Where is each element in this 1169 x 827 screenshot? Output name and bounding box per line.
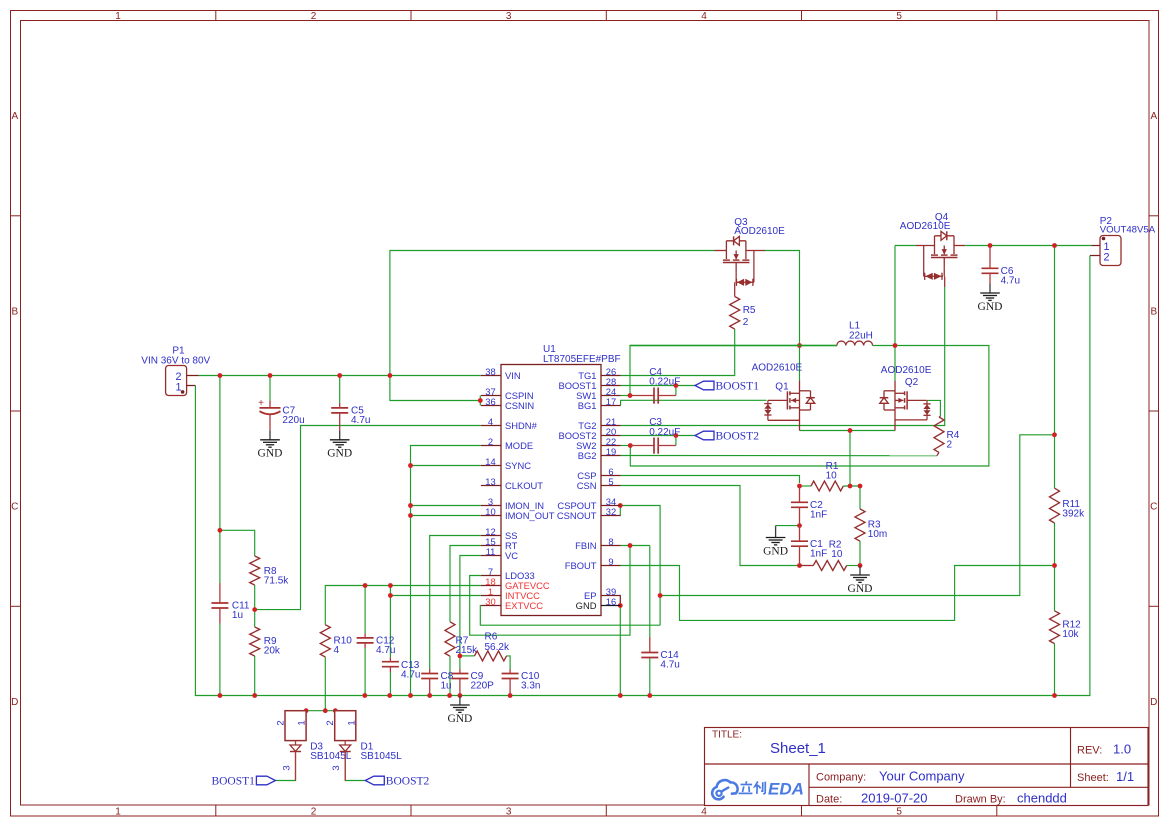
svg-text:VOUT48V5A: VOUT48V5A [1100,225,1156,236]
svg-text:GND: GND [327,448,352,460]
resistor R3 10m [855,509,865,541]
junction (219.9,695.5) [218,693,223,698]
junction (630,395.5) [628,393,633,398]
svg-text:C: C [1150,502,1157,513]
svg-text:Sheet:: Sheet: [1077,772,1109,784]
wire C9 top lead [459,656,461,669]
svg-text:2: 2 [311,807,317,818]
svg-text:3: 3 [331,765,342,770]
junction (850,430.5) [848,428,853,433]
pin 16 GND [601,605,621,607]
wire TG2 to Q4 gate [621,287,945,426]
transistor Q3 AOD2610E [725,241,727,251]
ground (R2/R3 node) [859,566,861,576]
junction (429.7,695.5) [427,693,432,698]
svg-text:1: 1 [115,807,121,818]
svg-text:Drawn By:: Drawn By: [955,794,1006,806]
net flag BOOST1 (bottom) [256,776,275,785]
svg-text:AOD2610E: AOD2610E [752,362,803,373]
svg-text:2: 2 [311,11,317,22]
wire Q1 source row [800,430,896,432]
resistor R7 215k [445,622,455,656]
wire SW1 net [621,395,630,397]
junction (799.5,486) [797,484,802,489]
wire R3 bottom lead [859,541,861,565]
wire SS to C8 [430,536,481,670]
wire C13 to rail [389,672,391,696]
capacitor C3 0.22uF (bootstrap 2) [630,445,654,447]
svg-text:GND: GND [576,600,597,611]
junction (620.3,505.5) [618,503,623,508]
resistor R10 4 [320,625,330,657]
junction (660.1,595.5) [658,593,663,598]
wire BG2 to R4 [621,455,937,457]
wire R12 to rail [1054,644,1056,696]
pin 20 BOOST2 [601,435,621,437]
junction (799.5,565.5) [797,563,802,568]
ground (bottom rail) [459,696,461,706]
svg-text:36: 36 [485,396,495,407]
wire R1 to R3 [843,485,860,487]
wire MODE riser [411,446,481,696]
op-amp U1 LT8705EFE#PBF body [501,365,601,616]
svg-text:32: 32 [606,506,616,517]
svg-text:B: B [1150,307,1157,318]
junction (219.9,375.5) [218,373,223,378]
pin 18 GATEVCC [481,585,501,587]
svg-text:20k: 20k [264,646,281,657]
svg-text:1: 1 [297,720,308,725]
wire EP tie [619,596,621,606]
ruler ticks [215,11,217,21]
wire R9 to rail [254,656,256,696]
wire SW1 riser [630,346,837,396]
pin 34 CSPOUT [601,505,621,507]
svg-text:392k: 392k [1062,509,1085,520]
junction (1054.5,245.5) [1052,243,1057,248]
wire C12 column [364,586,366,634]
junction (325.3,710.7) [323,708,328,713]
wire R6 right to C10 [507,656,511,669]
svg-text:4.7u: 4.7u [1001,276,1020,287]
junction (410.5,505.5) [408,503,413,508]
wire SW2 stub link [621,445,631,447]
pin 24 SW1 [601,395,621,397]
svg-text:1: 1 [115,11,121,22]
junction (389.9,375.5) [388,373,393,378]
wire SYNC [411,465,481,467]
wire VIN bus [199,375,481,377]
wire EP to R11 node [660,435,1054,596]
wire R3 top lead [859,486,861,509]
capacitor C8 1u [421,673,438,675]
svg-text:2: 2 [947,440,953,451]
junction (410.5,465.5) [408,463,413,468]
svg-text:71.5k: 71.5k [264,576,289,587]
junction (675.9,435.5) [674,433,679,438]
svg-text:REV:: REV: [1077,745,1102,757]
junction (799.5,525.6) [797,523,802,528]
svg-text:220P: 220P [471,681,495,692]
junction (860,565.5) [858,563,863,568]
wire C2 gnd stub [776,525,800,527]
svg-text:AOD2610E: AOD2610E [881,365,932,376]
wire D3 pin3 to flag [275,753,295,781]
svg-text:30: 30 [485,596,495,607]
resistor R11 392k [1050,488,1060,523]
resistor R8 71.5k [250,556,260,585]
junction (364.8,695.5) [362,693,367,698]
wire CSP [621,476,800,484]
wire Q1Q2 source to R1 [849,431,851,487]
svg-text:Company:: Company: [816,772,866,784]
capacitor C4 0.22uF (bootstrap 1) [630,395,654,397]
wire BOOST2 riser [675,436,677,446]
wire C11 bottom [219,624,221,696]
connector P2 [1100,236,1121,266]
svg-text:A: A [11,111,18,122]
wire C11 top [219,376,221,584]
pin 32 CSNOUT [601,515,621,517]
svg-text:C: C [11,502,18,513]
junction (630.3,445.5) [628,443,633,448]
svg-text:17: 17 [606,396,616,407]
wire FBIN to LDO33 [470,546,630,636]
wire SHDN to divider [255,426,481,610]
EDA logo [712,780,804,800]
svg-text:MODE: MODE [505,440,533,451]
capacitor C10 3.3n [502,673,519,675]
svg-text:AOD2610E: AOD2610E [734,226,785,237]
svg-text:D: D [11,697,18,708]
svg-text:LT8705EFE#PBF: LT8705EFE#PBF [543,354,621,365]
svg-text:CSNOUT: CSNOUT [557,510,597,521]
ground (C7) [269,430,271,440]
svg-text:16: 16 [606,596,616,607]
title block [705,728,1149,806]
junction (649.8,695.5) [647,693,652,698]
wire C7 top [269,376,271,401]
transistor Q1 AOD2610E [799,381,801,410]
svg-text:GND: GND [978,301,1003,313]
junction (410.5,515.5) [408,513,413,518]
pin 37 CSPIN [481,395,501,397]
svg-text:4: 4 [334,645,340,656]
svg-text:2: 2 [743,317,749,328]
svg-text:4.7u: 4.7u [660,660,679,671]
pin 12 SS [481,535,501,537]
junction (390.4,595.5) [388,593,393,598]
svg-text:19: 19 [606,446,616,457]
connector P1 [166,366,187,396]
wire CSPIN-CSNIN tie [479,396,481,406]
ground (C5) [339,430,341,440]
svg-text:1nF: 1nF [810,549,827,560]
wire C5 top [339,376,341,404]
svg-text:10: 10 [826,471,838,482]
svg-text:Q2: Q2 [905,377,919,388]
svg-text:1u: 1u [232,610,243,621]
junction (335.3,710.7) [333,708,338,713]
junction (620.3,605.5) [618,603,623,608]
svg-text:GND: GND [763,545,788,557]
pin 13 CLKOUT [481,485,501,487]
svg-text:2: 2 [488,436,493,447]
capacitor C1 1nF [791,540,808,542]
capacitor C12 4.7u [357,637,374,639]
junction (480.3,400.5) [478,398,483,403]
junction (990,245.5) [988,243,993,248]
svg-text:SYNC: SYNC [505,460,531,471]
capacitor C13 4.7u [382,661,399,663]
resistor R4 2 [934,417,944,452]
wire CSPOUT [620,506,660,626]
wire VC riser [460,556,481,656]
svg-text:1: 1 [346,720,357,725]
svg-text:CSN: CSN [577,480,597,491]
pin 19 BG2 [601,455,621,457]
svg-text:0.22uF: 0.22uF [649,376,680,387]
svg-text:11: 11 [486,546,496,557]
wire FBIN to C14 [649,546,651,638]
wire TG1 to R5 [621,329,735,376]
svg-text:2: 2 [325,720,336,725]
net flag BOOST2 (bottom) [365,776,384,785]
junction (510.1,695.5) [508,693,513,698]
svg-text:CLKOUT: CLKOUT [505,480,543,491]
resistor R9 20k [250,627,260,656]
capacitor C14 4.7u [641,652,658,654]
svg-text:Q1: Q1 [775,382,789,393]
diode D3 SB1045L [285,711,306,741]
svg-text:8: 8 [608,536,613,547]
svg-text:0.22uF: 0.22uF [649,427,680,438]
svg-text:14: 14 [485,456,495,467]
svg-text:1.0: 1.0 [1113,742,1131,757]
svg-text:3: 3 [506,807,512,818]
svg-text:4: 4 [701,11,707,22]
junction (799.5,345.5) [797,343,802,348]
pin 30 EXTVCC [481,605,501,607]
svg-text:5: 5 [896,807,902,818]
wire INTVCC [390,595,481,597]
wire Q2 drain to Q4 [895,245,916,247]
pin 3 IMON_IN [481,505,501,507]
junction (390.4,585.5) [388,583,393,588]
junction (254.7,695.5) [252,693,257,698]
svg-text:10: 10 [485,506,495,517]
ground (C6) [989,284,991,294]
pin 21 TG2 [601,425,621,427]
pin 26 TG1 [601,375,621,377]
wire CSN [621,486,800,566]
wire VOUT to R11 [1054,246,1056,489]
wire BOOST1 riser [675,386,677,396]
wire VOUT bus [965,245,1091,247]
junction (860,486) [858,484,863,489]
svg-text:56.2k: 56.2k [485,642,510,653]
capacitor C5 4.7u [331,407,348,409]
wire L1 right to SW2 node [873,345,895,347]
svg-text:BG1: BG1 [578,400,597,411]
svg-text:1: 1 [175,382,181,394]
wire VIN to Q3 [390,251,715,376]
svg-text:CSNIN: CSNIN [505,400,534,411]
svg-text:Sheet_1: Sheet_1 [770,740,826,757]
pin 1 INTVCC [481,595,501,597]
svg-text:+: + [258,398,264,409]
junction (449.6,695.5) [447,693,452,698]
wire EP to rail [619,606,621,696]
pin 36 CSNIN [481,405,501,407]
svg-text:B: B [11,307,18,318]
svg-text:4: 4 [488,416,493,427]
svg-text:D: D [1150,697,1157,708]
resistor R6 56.2k [475,651,507,661]
svg-text:2019-07-20: 2019-07-20 [861,791,928,806]
wire GATEVCC [325,586,481,625]
pin 14 SYNC [481,465,501,467]
wire IMON_IN [411,505,481,507]
junction (459.9,655.9) [458,654,463,659]
svg-text:FBOUT: FBOUT [565,560,597,571]
junction (270,375.5) [268,373,273,378]
svg-text:GND: GND [447,713,472,725]
net flag BOOST2 (top) [695,431,714,440]
wire R6 left lead [460,655,475,657]
wire R8-R9 link [254,585,256,627]
svg-text:22uH: 22uH [849,330,873,341]
wire C14 to rail [649,659,651,696]
svg-text:4.7u: 4.7u [401,670,420,681]
svg-text:chenddd: chenddd [1017,791,1067,806]
svg-text:EXTVCC: EXTVCC [505,600,543,611]
svg-text:5: 5 [608,476,613,487]
wire C12 to rail [364,648,366,696]
junction (339.7,375.5) [337,373,342,378]
svg-text:1/1: 1/1 [1116,769,1134,784]
capacitor C9 220P [451,673,468,675]
net flag BOOST1 (top) [695,381,714,390]
svg-text:13: 13 [485,476,495,487]
svg-text:GND: GND [848,583,873,595]
svg-text:VIN 36V to 80V: VIN 36V to 80V [141,356,210,367]
junction (365.1,585.5) [363,583,368,588]
svg-text:EDA: EDA [768,780,804,799]
junction (219.9,530.3) [218,528,223,533]
wire R1 row [800,485,812,487]
resistor R12 10k [1050,611,1060,644]
svg-text:5: 5 [896,11,902,22]
junction (630,545.5) [628,543,633,548]
svg-text:BOOST1: BOOST1 [716,380,760,392]
pin 9 FBOUT [601,565,621,567]
junction (1054.5,695.5) [1052,693,1057,698]
svg-text:BOOST2: BOOST2 [716,430,760,442]
diode D1 SB1045L [335,711,356,741]
wire R7 to rail [449,656,451,695]
junction (459.9,695.5) [458,693,463,698]
svg-text:A: A [1150,111,1157,122]
wire C13 column [389,586,391,658]
svg-text:TITLE:: TITLE: [712,730,742,741]
svg-text:VIN: VIN [505,370,521,381]
resistor R1 10 [811,481,843,491]
wire Q2/Q4 riser [894,246,896,382]
junction (850,486) [848,484,853,489]
svg-text:2: 2 [276,720,287,725]
svg-text:Your Company: Your Company [879,769,965,784]
svg-text:FBIN: FBIN [575,540,596,551]
pin 17 BG1 [601,405,621,407]
pin 10 IMON_OUT [481,515,501,517]
wire CSNIN link [390,376,480,401]
inductor L1 22uH [630,345,837,347]
svg-text:9: 9 [608,556,613,567]
svg-text:3: 3 [282,765,293,770]
wire BOOST1 [621,385,695,387]
transistor Q2 AOD2610E [894,381,896,410]
wire Q1 drain [799,346,801,382]
pin 22 SW2 [601,445,621,447]
svg-text:VC: VC [505,550,518,561]
svg-text:SHDN#: SHDN# [505,420,538,431]
svg-text:220u: 220u [282,415,304,426]
svg-text:4: 4 [701,807,707,818]
svg-text:Date:: Date: [816,794,842,806]
pin 15 RT [481,545,501,547]
wire R11 to R12 [1054,523,1056,611]
wire D1 pin3 to flag [345,753,365,781]
pin 38 VIN [481,375,501,377]
capacitor C6 4.7u [982,267,999,269]
junction (620.3,695.5) [618,693,623,698]
wire R2-R3 gnd node [847,565,860,567]
svg-text:3.3n: 3.3n [521,681,540,692]
pin 6 CSP [601,475,621,477]
svg-text:AOD2610E: AOD2610E [900,221,951,232]
wire BOOST2 [621,435,695,437]
wire R10 to diodes [324,657,326,711]
junction (254.7,609.6) [252,607,257,612]
svg-text:SB1045L: SB1045L [361,751,403,762]
pin 5 CSN [601,485,621,487]
svg-text:2: 2 [1103,252,1109,264]
svg-text:IMON_OUT: IMON_OUT [505,510,555,521]
resistor R2 10 [800,565,814,567]
wire diode top row [285,710,355,712]
svg-text:10k: 10k [1062,629,1079,640]
wire R8 top link [220,530,255,556]
capacitor C7 (electrolytic 220u) [269,401,271,408]
pin 11 VC [481,555,501,557]
junction (306.1,710.7) [304,708,309,713]
pin 2 MODE [481,445,501,447]
pin 4 SHDN# [481,425,501,427]
wire SW2 loop [630,346,989,467]
wire Q3 source to SW1 node [764,251,799,346]
ground (C2 node) [775,526,777,528]
wire Q2 gate link [927,400,940,416]
svg-text:GND: GND [258,448,283,460]
svg-text:38: 38 [485,366,495,377]
pin 7 LDO33 [481,575,501,577]
junction (675.9,385.5) [674,383,679,388]
pin 28 BOOST1 [601,385,621,387]
pin 39 EP [601,595,621,597]
transistor Q4 AOD2610E [934,236,936,246]
svg-text:BOOST1: BOOST1 [211,775,255,787]
